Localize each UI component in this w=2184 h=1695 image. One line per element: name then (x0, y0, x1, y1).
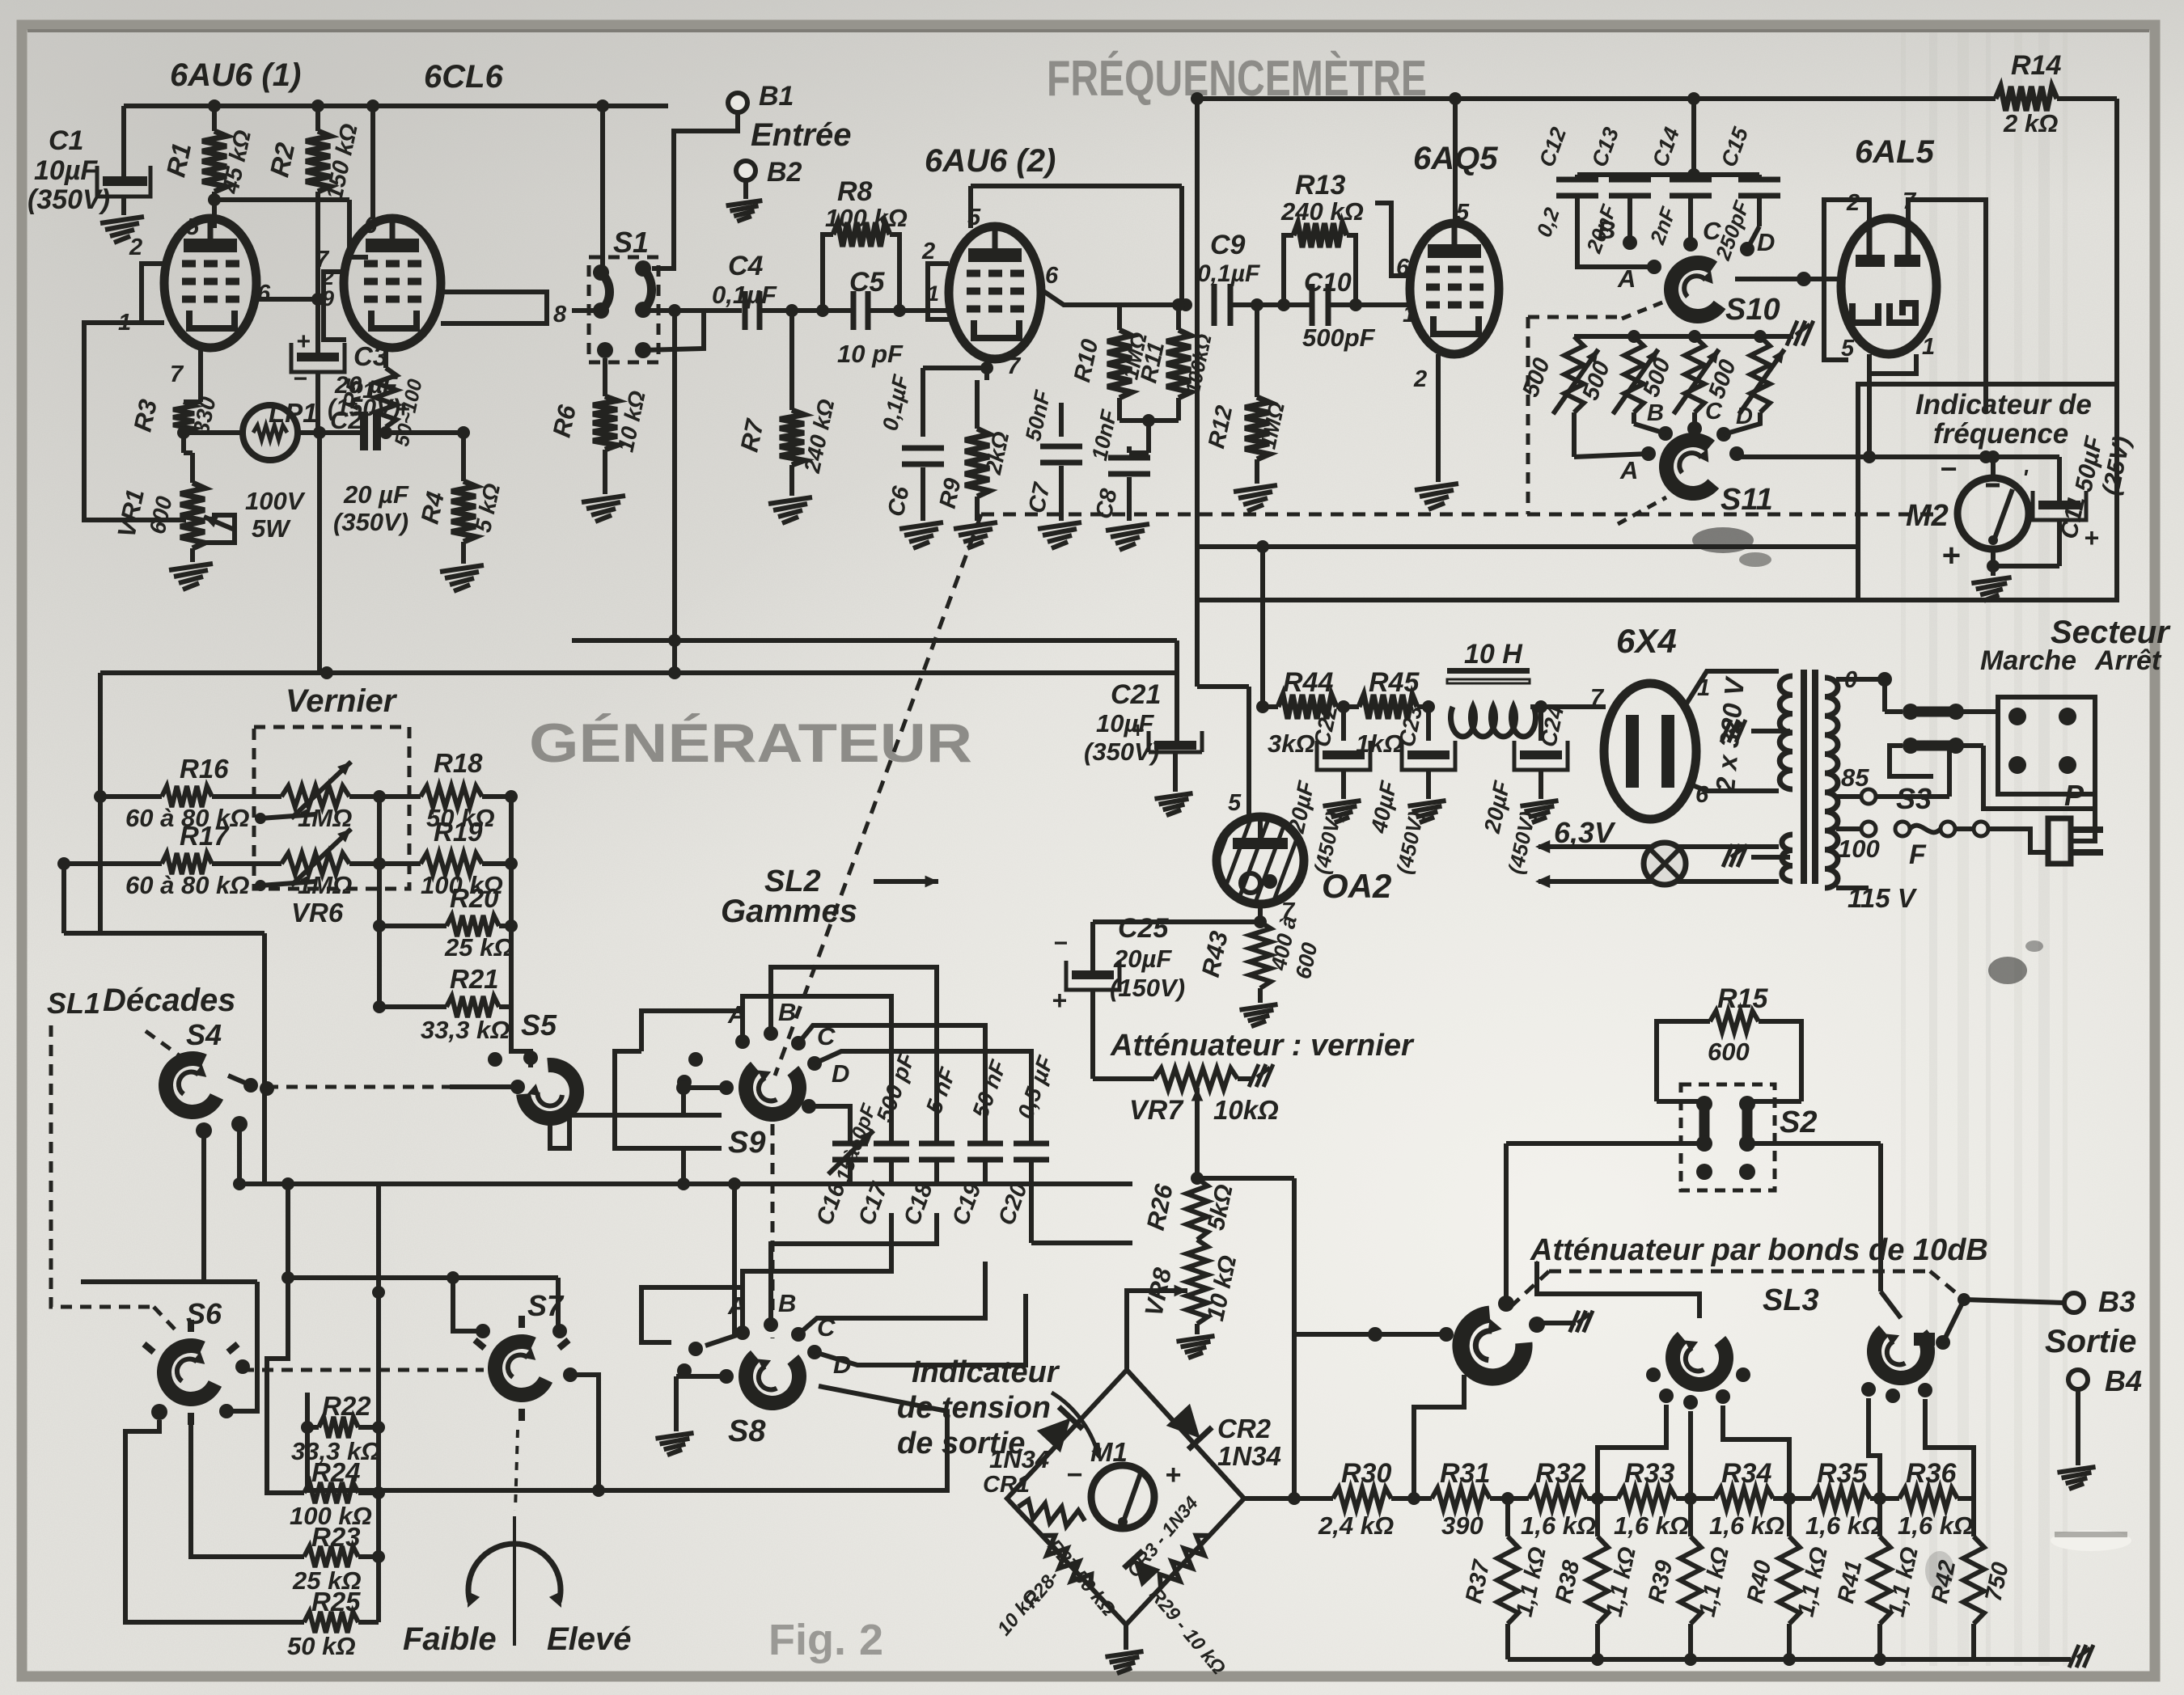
contacts S9 ABCD (677, 1026, 822, 1089)
wire 6AQ5 plate up (1449, 92, 1462, 223)
label 6AU6 (2) (925, 143, 1056, 179)
ground under R7 (768, 497, 812, 523)
ground under R4 (440, 565, 484, 591)
label Arret (2094, 645, 2162, 676)
box R15 (1657, 1021, 1801, 1101)
svg-text:+: + (1131, 717, 1144, 742)
bracket S8 B (771, 1213, 937, 1325)
label C22 (1284, 703, 1346, 876)
capacitor C6 (902, 368, 944, 521)
junction R19 (373, 857, 386, 870)
plug P (2048, 818, 2103, 864)
meter M2 (1958, 478, 2029, 549)
dashed box S11 bank (1528, 317, 1626, 514)
svg-text:−: − (1066, 1460, 1082, 1490)
dashed SL3 (1506, 1271, 1964, 1311)
label R45 (1356, 667, 1420, 758)
wire 6AU6(2) pin2 bracket (928, 264, 949, 319)
bracket S9 A to C17 (641, 996, 891, 1138)
title FREQUENCEMETRE (1047, 51, 1427, 107)
wire 6X4 plate bottom (1691, 784, 1779, 791)
wire R44 feed (1256, 540, 1269, 713)
label M2 (1906, 499, 1949, 533)
svg-text:390: 390 (1441, 1511, 1484, 1540)
ground SL3 pot1 (1542, 1311, 1593, 1333)
wire S6 left drop (125, 1420, 304, 1622)
resistor R2 (306, 106, 330, 349)
wiper VR7 (1191, 1088, 1204, 1178)
wire S1 left lower to R6 (603, 358, 607, 396)
wire gen box top (100, 666, 1177, 679)
label Marche (1980, 645, 2076, 676)
wire S1 out drop (668, 311, 681, 679)
label 2x320V (1710, 674, 1750, 794)
wire S9 wiper out (676, 1080, 734, 1115)
wire 6CL6 plate to rail (366, 99, 379, 218)
label R1 (160, 128, 256, 197)
svg-text:OA2: OA2 (1322, 867, 1391, 905)
label 6AQ5 (1413, 141, 1498, 176)
label R17 (125, 821, 250, 899)
diode CR1 (1037, 1407, 1083, 1453)
svg-text:R33: R33 (1624, 1458, 1674, 1489)
junction B3 (1958, 1293, 1970, 1306)
label 85 (1841, 763, 1869, 792)
wire pot1 tap (1414, 1375, 1464, 1498)
wire pot2 taps (1691, 1405, 1789, 1498)
label VR5 (298, 804, 352, 832)
variable resistors 500 x4 (1553, 336, 1784, 414)
wire bottom bus to ground (1974, 1657, 2071, 1662)
wire right edge down (2114, 99, 2119, 384)
svg-text:100: 100 (1838, 835, 1880, 863)
svg-text:3kΩ: 3kΩ (1268, 729, 1315, 758)
terminal B2 (736, 161, 756, 180)
svg-text:10 H: 10 H (1464, 639, 1523, 670)
label C25 (1052, 913, 1185, 1015)
wire S11 out (1729, 446, 2059, 463)
svg-text:R35: R35 (1817, 1458, 1868, 1489)
svg-text:60 à 80 kΩ: 60 à 80 kΩ (125, 871, 250, 899)
wire R36 up tap (1925, 1399, 1974, 1498)
resistor R22 (319, 1417, 379, 1438)
svg-text:5W: 5W (252, 514, 291, 543)
junction R30/R31 (1407, 1492, 1420, 1505)
wire 6AQ5 cathode down (1436, 354, 1441, 482)
svg-text:Faible: Faible (403, 1621, 497, 1657)
svg-text:6CL6: 6CL6 (424, 59, 504, 95)
label R41 (1833, 1545, 1924, 1619)
label C3 (293, 341, 400, 421)
resistor R30 (1333, 1488, 1432, 1509)
dashed link S11 (1618, 497, 1666, 524)
label M1 (1066, 1437, 1181, 1490)
wire pin6 to R2 (256, 297, 318, 302)
wire 6CL6 pin7 bracket (324, 272, 346, 340)
svg-text:600: 600 (1708, 1038, 1750, 1066)
label R21 (421, 964, 510, 1044)
label primary 0 (1844, 667, 1857, 693)
label C9 (1197, 230, 1260, 287)
label VR7 (1129, 1095, 1279, 1126)
label S10 (1725, 293, 1780, 327)
ground under R9 (954, 522, 997, 548)
dashed SL1 to S4 (146, 1031, 184, 1059)
label R36 (1898, 1458, 1973, 1540)
label R29 (1145, 1584, 1230, 1680)
wire R17 row (57, 857, 162, 870)
wire R1 to grid bypass (208, 192, 349, 206)
ground under R6 (582, 496, 625, 522)
switch S4 (146, 1042, 234, 1131)
svg-text:D: D (832, 1059, 849, 1088)
svg-text:Elevé: Elevé (547, 1621, 632, 1657)
resistor R27 (1017, 1498, 1087, 1530)
resistor R33 (1618, 1488, 1715, 1509)
tube 6AL5 (1841, 218, 1936, 354)
label S11 (1721, 483, 1773, 517)
label S2 (1780, 1105, 1817, 1139)
svg-text:1MΩ: 1MΩ (298, 804, 352, 832)
svg-text:Décades: Décades (103, 983, 236, 1018)
capacitor C9 (1214, 284, 1284, 326)
svg-text:2,4 kΩ: 2,4 kΩ (1318, 1511, 1394, 1540)
wire S8 left feed (705, 1177, 741, 1346)
svg-text:D: D (1757, 228, 1775, 256)
svg-text:B: B (1598, 216, 1615, 244)
label B1 (759, 81, 794, 112)
label C23 (1366, 703, 1428, 876)
label F (1909, 839, 1927, 870)
resistor R14 (1996, 87, 2117, 111)
label R35 (1805, 1458, 1881, 1540)
ground ladder (2069, 1645, 2093, 1668)
label B4 (2105, 1364, 2142, 1397)
svg-text:2 kΩ: 2 kΩ (2003, 109, 2058, 137)
capacitor C23 (1402, 707, 1455, 799)
bracket S9 B to C18 (771, 967, 937, 1138)
svg-text:C25: C25 (1118, 913, 1169, 944)
svg-text:1,6 kΩ: 1,6 kΩ (1805, 1511, 1881, 1540)
wire rail 676 (1197, 544, 1858, 549)
resistor R20 (379, 915, 511, 936)
label Decades (103, 983, 236, 1018)
wire x356 down (267, 1184, 304, 1493)
svg-text:(350V): (350V) (1084, 738, 1159, 766)
svg-text:33,3 kΩ: 33,3 kΩ (421, 1016, 510, 1044)
svg-text:P: P (2064, 779, 2085, 812)
switch S2 knife right (1739, 1096, 1755, 1152)
svg-text:2: 2 (129, 235, 142, 260)
wire S4 down a (201, 1131, 206, 1282)
svg-text:6AU6 (2): 6AU6 (2) (925, 143, 1056, 179)
wire pot2 tap left (1598, 1405, 1666, 1498)
capacitor C8 (1108, 446, 1150, 521)
svg-text:7: 7 (1007, 353, 1022, 379)
switch S11 (1652, 427, 1729, 509)
svg-text:R30: R30 (1341, 1458, 1391, 1489)
resistor R9 (965, 380, 989, 521)
wire R bus right (372, 1184, 385, 1622)
svg-text:10µF: 10µF (1096, 709, 1154, 738)
ground under B4 (2057, 1467, 2095, 1489)
svg-text:S5: S5 (521, 1008, 557, 1042)
svg-text:50 kΩ: 50 kΩ (287, 1632, 356, 1660)
svg-text:10 pF: 10 pF (837, 340, 904, 368)
label 6AL5 (1855, 134, 1935, 170)
label S3 (1896, 782, 1932, 815)
terminal B3 (2064, 1293, 2084, 1312)
dashed SL2 S9-S8 (771, 1124, 775, 1338)
title Fig. 2 (768, 1616, 883, 1664)
svg-text:1,6 kΩ: 1,6 kΩ (1709, 1511, 1784, 1540)
wire S1 right to signal (643, 304, 742, 317)
wire S5 to S9 row (550, 1115, 722, 1148)
svg-text:R18: R18 (434, 748, 483, 778)
label 6AU6 (1) (170, 57, 301, 93)
label CR2 (1217, 1414, 1281, 1471)
switch S8 (736, 1346, 809, 1413)
label C3 plus (296, 328, 311, 355)
svg-text:R14: R14 (2011, 50, 2061, 81)
ground S8 (655, 1405, 693, 1455)
svg-text:1N34: 1N34 (1217, 1441, 1281, 1471)
label R30 (1318, 1458, 1394, 1540)
resistor R18 (421, 786, 511, 807)
svg-text:Entrée: Entrée (751, 117, 852, 153)
wire C2 to R4 (377, 430, 463, 435)
resistor R36 (1899, 1488, 1974, 1509)
label R38 (1551, 1545, 1641, 1619)
labels C16-C20 (811, 1049, 1058, 1228)
junction R34/R35 (1783, 1492, 1796, 1505)
wire R35 up tap (1869, 1398, 1880, 1498)
pin labels 6AU6(2) (921, 205, 1059, 379)
label R26 (1141, 1181, 1238, 1233)
resistor R32 (1529, 1488, 1618, 1509)
label 100 (1838, 835, 1880, 863)
label SL1 (47, 987, 100, 1020)
label R7 (734, 397, 839, 476)
wire pot3 wiper (1881, 1291, 1935, 1346)
switch S2 knife left (1696, 1096, 1712, 1152)
svg-text:10µF: 10µF (34, 155, 98, 186)
label Secteur (2051, 615, 2171, 650)
svg-text:+: + (1052, 986, 1067, 1015)
switch S9 (736, 1057, 809, 1124)
svg-text:R8: R8 (837, 176, 873, 207)
label C21 (1084, 679, 1161, 766)
svg-text:1,6 kΩ: 1,6 kΩ (1521, 1511, 1596, 1540)
svg-text:25 kΩ: 25 kΩ (444, 933, 514, 962)
resistor R10 (1107, 305, 1132, 421)
wire S1 feed (596, 99, 609, 267)
contacts S10 B C D (1623, 217, 1759, 256)
wire R16 row (94, 790, 162, 803)
wire long 1464 (239, 1177, 1132, 1190)
ground under C21 (1154, 793, 1192, 815)
junction R35/R36 (1873, 1492, 1886, 1505)
lamp 6.3V (1535, 840, 1779, 888)
svg-text:Sortie: Sortie (2045, 1324, 2136, 1359)
resistor R21 (379, 996, 511, 1017)
ground under 6AQ5 (1415, 484, 1458, 509)
svg-text:2: 2 (1413, 366, 1427, 392)
switch SL3 pot2 (1646, 1327, 1750, 1410)
resistor R1 (202, 106, 226, 228)
resistor R45 (1359, 695, 1428, 719)
label S9 (728, 1126, 765, 1160)
switch S1 lower contacts (597, 342, 651, 358)
resistor R13 (1284, 223, 1356, 305)
label R40 (1742, 1545, 1833, 1619)
svg-text:6,3V: 6,3V (1554, 816, 1616, 849)
svg-text:S2: S2 (1780, 1105, 1817, 1139)
svg-text:R22: R22 (322, 1391, 371, 1421)
ground under R12 (1234, 485, 1277, 511)
box indicateur frequence (1858, 384, 2117, 600)
label R18 (426, 748, 495, 832)
wire 6AL5 pin7 bracket (1908, 200, 1986, 412)
label C11 (2055, 433, 2135, 541)
svg-text:C1: C1 (49, 125, 83, 156)
tube 6AU6(2) (949, 226, 1041, 359)
spokes S6 (144, 1320, 238, 1425)
svg-text:240 kΩ: 240 kΩ (1280, 197, 1364, 226)
ground heater tap (1723, 844, 1790, 867)
tube 6AU6(1) (164, 218, 256, 348)
wire R3 junction (177, 426, 190, 439)
label P (2064, 779, 2085, 812)
wire B1 down (652, 112, 738, 268)
wire B2 down (743, 180, 748, 199)
wire cap bus (1577, 168, 1759, 181)
resistor R25 (304, 1612, 379, 1633)
pin labels 6AU6(1) (118, 214, 271, 387)
label LP1 (245, 398, 318, 543)
wire 6CL6 pin8 bracket (441, 292, 547, 323)
label S8 (728, 1414, 766, 1448)
ground under C22 (1323, 801, 1361, 822)
tube 6X4 (1604, 683, 1696, 819)
ground under C7 (1038, 522, 1081, 548)
labels S11 BCD (1647, 399, 1753, 429)
wire long 1580 (288, 1275, 558, 1280)
potentiometer VR1 (180, 433, 235, 562)
label R33 (1614, 1458, 1689, 1540)
wire tap to S3 (1876, 749, 1949, 797)
potentiometer VR8 (1149, 1240, 1208, 1334)
resistor R15 (1710, 1011, 1759, 1032)
svg-text:R13: R13 (1295, 170, 1345, 201)
svg-text:R44: R44 (1283, 667, 1333, 698)
label B3 (2098, 1285, 2135, 1318)
label OA2 (1322, 867, 1391, 905)
capacitor C2 (364, 412, 377, 450)
svg-text:R15: R15 (1717, 983, 1768, 1014)
svg-text:fréquence: fréquence (1933, 418, 2068, 450)
wire S3 to arret (1956, 712, 2095, 809)
wire pin7 down (184, 348, 201, 402)
label C1 (28, 125, 110, 215)
capacitor C10 (1284, 284, 1412, 326)
svg-text:+: + (1941, 538, 1960, 573)
bridge diamond (1007, 1370, 1244, 1625)
wire 6AU6(2) screen right (1041, 290, 1192, 311)
svg-text:F: F (1909, 839, 1927, 870)
capacitors C16-C20 (828, 1131, 1049, 1184)
svg-text:7: 7 (1590, 685, 1605, 711)
resistor R17 (162, 853, 281, 874)
ground under C23 (1407, 801, 1445, 822)
switch S1 knife left (593, 264, 610, 319)
ground under bridge (1105, 1651, 1143, 1673)
svg-text:SL1: SL1 (47, 987, 100, 1020)
label R43 (1196, 914, 1323, 981)
contact S11 A (1574, 412, 1656, 461)
svg-text:(350V): (350V) (333, 508, 408, 536)
label R28 (993, 1566, 1064, 1640)
switch S7 (476, 1325, 563, 1414)
label S4 (186, 1018, 222, 1051)
svg-text:C21: C21 (1111, 679, 1161, 710)
wire 6AL5 pin2 bracket (1824, 200, 1869, 360)
wire S9 to C16 (802, 1099, 850, 1138)
label R8 (825, 176, 908, 232)
labels CR1 (983, 1445, 1049, 1498)
resistor R24 (304, 1482, 379, 1503)
potentiometer VR5 (255, 762, 421, 824)
spokes S7 (475, 1316, 578, 1421)
wire C12 to A (1577, 217, 1661, 274)
resistor R5 (375, 368, 396, 439)
label S10 A (1617, 264, 1636, 293)
ground VR7 (1249, 1064, 1273, 1087)
svg-text:2: 2 (921, 239, 935, 264)
label R44 (1268, 667, 1333, 758)
switch S3 knife 2 (1890, 738, 1964, 776)
wire top rail left (124, 106, 668, 168)
resistor R11 (1166, 298, 1191, 421)
label C4 (712, 251, 777, 309)
transformer HV centertap (1721, 720, 1790, 742)
label M2 minus (1940, 452, 1957, 485)
capacitor C7 (1040, 403, 1082, 521)
svg-text:C10: C10 (1304, 268, 1352, 297)
labels S10 BCD (1598, 216, 1775, 256)
pin labels 6CL6 (315, 213, 567, 403)
label R16 (125, 754, 250, 832)
svg-text:500pF: 500pF (1302, 323, 1376, 352)
tap 85 (1836, 789, 1876, 804)
resistor R3 (173, 402, 194, 433)
switch SL3 pot1 (1437, 1296, 1545, 1401)
switch S6 (145, 1329, 250, 1420)
switch S3 knife 1 (1885, 679, 1964, 720)
junction R33/R34 (1684, 1492, 1697, 1505)
svg-text:Atténuateur par bonds de 10dB: Atténuateur par bonds de 10dB (1530, 1233, 1988, 1267)
svg-text:Vernier: Vernier (286, 683, 398, 719)
svg-text:S1: S1 (613, 226, 649, 259)
wire S2 left (1506, 1143, 1704, 1311)
junction R4 top (313, 426, 470, 439)
label Entree (751, 117, 852, 153)
label R13 (1280, 170, 1364, 226)
resistor R28 (1035, 1529, 1098, 1595)
svg-text:5: 5 (186, 214, 200, 240)
svg-text:R24: R24 (311, 1457, 361, 1487)
wire M2 top (1987, 450, 2000, 478)
